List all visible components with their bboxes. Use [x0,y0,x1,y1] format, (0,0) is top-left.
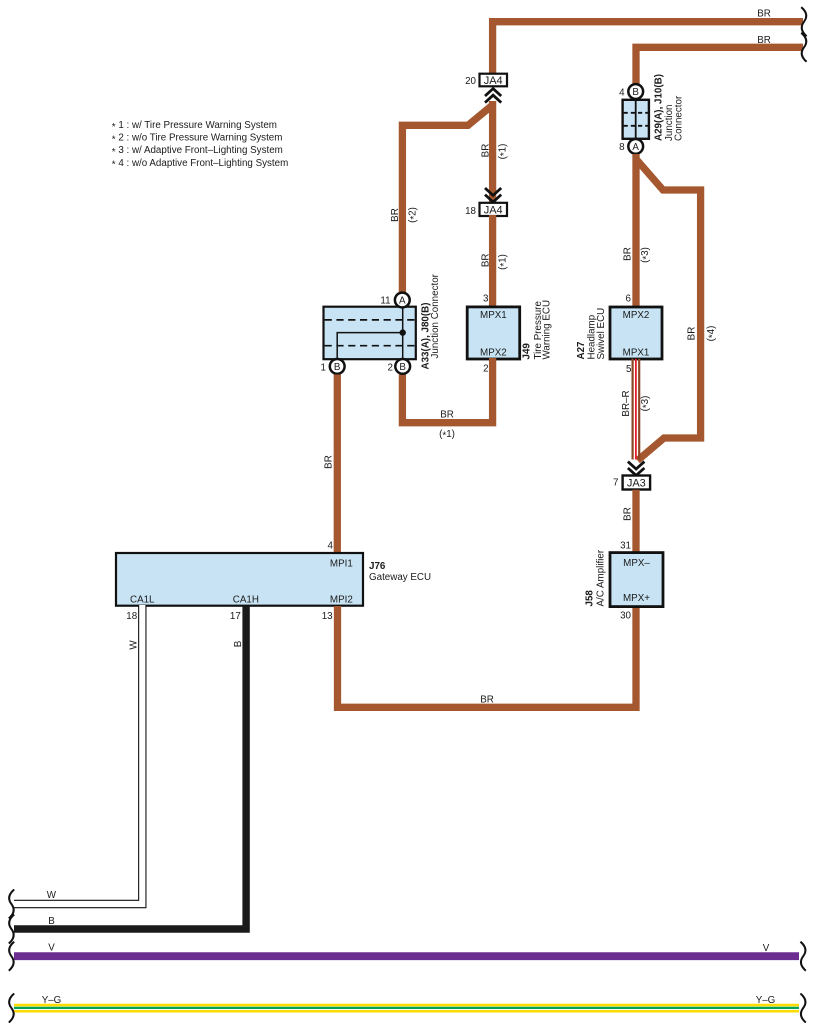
arrow double chevron up below 20 JA4 [485,89,501,103]
svg-text:Y–G: Y–G [756,995,776,1006]
svg-text:B: B [399,362,406,373]
svg-text:(*3): (*3) [640,247,653,263]
wire Y-G green stripe [14,1007,799,1009]
connector JA4 pin 18 box [480,203,508,216]
svg-text:W: W [128,640,139,650]
wire BR-R right brown stripe [638,359,640,460]
svg-text:MPX+: MPX+ [623,593,650,604]
svg-text:A29(A), J10(B): A29(A), J10(B) [654,74,665,141]
arrow double chevron down above JA3 [628,462,645,476]
svg-text:18: 18 [465,206,476,217]
connector JA4 pin 20 box [480,74,508,87]
ECU J49 box [467,307,520,359]
svg-text:30: 30 [620,611,631,622]
wire V purple [14,952,799,960]
pin 11 A circle [395,293,410,308]
continuation brace right BR-1 [801,7,806,36]
svg-text:B: B [48,916,55,927]
svg-text:MPX2: MPX2 [623,310,650,321]
svg-text:BR: BR [480,694,494,705]
continuation brace right V [800,942,805,971]
svg-text:MPX–: MPX– [623,558,650,569]
continuation brace left B [9,915,14,944]
svg-text:11: 11 [380,295,390,306]
svg-text:Junction Connector: Junction Connector [430,273,441,358]
pin 1 B circle [330,359,345,374]
svg-text:BR: BR [623,507,634,521]
ECU J76 Gateway box [116,553,363,606]
svg-text:BR: BR [480,144,491,158]
svg-text:J58: J58 [585,590,596,607]
wire BR A33 pin1 to J76 pin 4 [334,375,341,555]
wire Y-G yellow bottom stripe [14,1010,799,1013]
pin 2 B circle [395,359,410,374]
A33 internal circuit [337,308,403,358]
svg-text:(*1): (*1) [498,254,511,270]
svg-text:* 2 : w/o Tire Pressure Warnin: * 2 : w/o Tire Pressure Warning System [112,133,283,146]
svg-text:8: 8 [619,142,625,153]
svg-text:MPX2: MPX2 [480,348,507,359]
wire W white core [13,605,142,904]
wire Y-G yellow top stripe [14,1004,799,1007]
A29 internal dashed rows [624,113,648,126]
svg-text:BR: BR [323,455,334,469]
svg-text:A/C Amplifier: A/C Amplifier [596,549,607,606]
pin 4 B circle of A29 [628,84,643,99]
svg-text:V: V [763,943,770,954]
svg-text:18: 18 [126,611,137,622]
wire BR (*4) bypass branch [636,159,701,461]
svg-text:20: 20 [465,76,476,87]
svg-text:V: V [48,943,55,954]
A29 internal vertical line [635,101,637,138]
wire BR (*2) branch to A33 pin 11 [402,105,492,293]
svg-text:* 3 : w/ Adaptive Front–Lighti: * 3 : w/ Adaptive Front–Lighting System [112,145,283,158]
svg-text:13: 13 [322,611,333,622]
wire BR (*3) A29 pin A to A27 pin 6 [632,154,639,308]
svg-text:4: 4 [619,88,625,99]
wire BR-R red stripe [635,359,637,460]
svg-text:JA3: JA3 [627,477,646,489]
svg-text:2: 2 [388,362,393,373]
svg-text:(*1): (*1) [439,429,455,442]
wire BR top-2 horizontal to A29 [636,47,803,84]
svg-text:BR: BR [687,327,698,341]
continuation brace right BR-2 [801,33,806,62]
pin 8 A circle of A29 [628,139,643,154]
ECU A27 box [610,307,662,359]
continuation brace left W [9,890,14,919]
svg-text:3: 3 [483,294,489,305]
arrow double chevron down above 18 JA4 [485,188,501,202]
svg-text:5: 5 [626,364,632,375]
wire BR (*1) J49 pin2 to A33 pin 2 [402,358,492,423]
svg-text:1: 1 [321,362,326,373]
svg-text:JA4: JA4 [484,204,503,216]
wire W outline from CA1L pin 18 [14,606,142,904]
svg-text:17: 17 [230,611,241,622]
wire BR top-1 horizontal to 20 JA4 [493,22,803,75]
svg-text:BR: BR [440,409,454,420]
svg-text:JA4: JA4 [484,75,503,87]
wire BR J76 pin 13 to J58 pin 30 [338,606,637,707]
continuation brace left Y-G [9,994,14,1023]
svg-text:BR: BR [757,9,771,20]
svg-text:BR: BR [480,253,491,267]
wire B from CA1H pin 17 [14,606,246,929]
svg-text:BR: BR [757,35,771,46]
svg-text:A: A [632,142,639,153]
wire BR (*1) between JA4 20 and JA4 18 [489,101,496,204]
svg-text:Y–G: Y–G [42,995,62,1006]
svg-text:(*4): (*4) [706,326,719,342]
junction connector A29 box [623,100,649,139]
wire BR JA3 to J58 pin 31 [632,490,639,554]
svg-text:A: A [399,296,406,307]
svg-text:B: B [233,640,244,647]
svg-text:MPX1: MPX1 [623,348,650,359]
svg-text:B: B [632,87,639,98]
wire BR-R (*3) striped: left brown stripe [631,359,633,460]
svg-text:(*2): (*2) [408,207,421,223]
svg-text:Gateway ECU: Gateway ECU [369,572,431,583]
svg-text:6: 6 [626,294,632,305]
svg-text:J49: J49 [522,343,533,360]
svg-text:4: 4 [328,540,334,551]
svg-text:7: 7 [613,478,618,489]
A33 dashed internal lines [325,320,415,346]
svg-text:2: 2 [483,364,488,375]
svg-text:Connector: Connector [674,95,685,141]
svg-text:W: W [47,890,57,901]
svg-text:MPI2: MPI2 [330,594,353,605]
continuation brace right Y-G [800,994,805,1023]
svg-text:Warning ECU: Warning ECU [542,300,553,360]
svg-text:BR–R: BR–R [621,390,632,416]
svg-text:CA1L: CA1L [130,594,155,605]
svg-text:BR: BR [390,208,401,222]
svg-text:* 4 : w/o Adaptive Front–Light: * 4 : w/o Adaptive Front–Lighting System [112,158,288,171]
ECU J58 box [610,553,663,607]
svg-text:* 1 : w/ Tire Pressure Warning: * 1 : w/ Tire Pressure Warning System [112,120,277,133]
connector JA3 pin 7 box [623,476,651,490]
svg-text:BR: BR [623,247,634,261]
svg-text:31: 31 [620,541,631,552]
wire BR (*1) JA4 18 to J49 pin 3 [489,215,496,307]
A33 junction dot [400,329,406,335]
svg-text:J76: J76 [369,561,386,572]
svg-text:B: B [334,362,341,373]
svg-text:MPX1: MPX1 [480,310,507,321]
svg-text:(*1): (*1) [498,144,511,160]
svg-text:MPI1: MPI1 [330,559,353,570]
svg-text:(*3): (*3) [640,396,653,412]
svg-text:A27: A27 [576,341,587,360]
junction connector A33 box [324,307,416,360]
svg-text:Swivel ECU: Swivel ECU [596,308,607,360]
svg-text:CA1H: CA1H [233,594,259,605]
continuation brace left V [9,942,14,971]
